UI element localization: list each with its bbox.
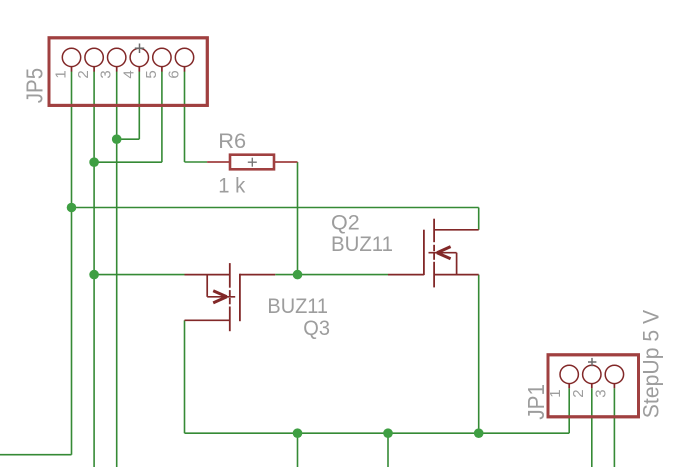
wire top net down to Q2 drain (478, 208, 480, 230)
Q2 gate line (423, 230, 425, 275)
transistor Q2 (388, 219, 479, 288)
svg-text:5: 5 (143, 70, 160, 78)
svg-text:2: 2 (570, 389, 587, 397)
JP5 pin 2 (75, 48, 103, 78)
wire gate net middle segment (275, 274, 388, 276)
wire Q2 source down (478, 275, 480, 434)
Q2 bulk arrowhead (437, 247, 451, 259)
JP5 pin 3 (98, 48, 126, 78)
junction pin2/pin5 (89, 157, 99, 167)
wire pin2 JP5 vertical (93, 72, 95, 467)
transistor Q3 (185, 263, 276, 331)
svg-text:1: 1 (53, 70, 70, 78)
connector JP5 (22, 38, 208, 106)
svg-text:1: 1 (547, 389, 564, 397)
junction pin2/gate net (89, 270, 99, 280)
JP5 box outline (49, 38, 207, 106)
svg-text:1 k: 1 k (218, 174, 245, 197)
wire Q3 drain down (184, 320, 186, 433)
wire pin6 to R6 horizontal (185, 161, 208, 163)
Q2 gate lead (388, 274, 424, 276)
JP5 pin 5 (143, 48, 171, 78)
svg-text:Q2: Q2 (331, 212, 360, 235)
Q3 bulk connection (207, 275, 235, 297)
wire pin1 bottom horizontal to left edge (0, 454, 72, 456)
JP1 origin cross (588, 358, 596, 366)
svg-text:6: 6 (166, 70, 183, 78)
svg-text:StepUp 5 V: StepUp 5 V (639, 310, 664, 418)
svg-text:4: 4 (120, 70, 137, 78)
Q3 source lead (185, 274, 230, 276)
wire pin3 JP5 vertical (116, 72, 118, 467)
Q2 source lead (434, 274, 479, 276)
wire pin6 JP5 vertical (184, 72, 186, 163)
wire JP1 pin2 down (591, 388, 593, 467)
wire R6 right vertical down (297, 162, 299, 275)
JP5 pin 1 (53, 48, 81, 78)
svg-text:JP1: JP1 (523, 384, 549, 420)
JP5 box border restroke (49, 38, 207, 106)
svg-text:3: 3 (98, 70, 115, 78)
wire top net horizontal (72, 207, 479, 209)
Q3 bulk arrowhead (213, 291, 227, 303)
wire pin5 JP5 vertical (161, 72, 163, 163)
JP5 pin 4 (120, 48, 148, 78)
wire drop A to bottom edge (297, 433, 299, 467)
junction bottom wire Q2 source (474, 428, 484, 438)
JP1 pin 2 (570, 365, 601, 398)
wire JP1 pin3 down (613, 388, 615, 467)
svg-text:JP5: JP5 (22, 68, 48, 103)
wire pin4 JP5 vertical (138, 72, 140, 140)
svg-text:BUZ11: BUZ11 (331, 233, 393, 256)
resistor R6 (207, 155, 297, 170)
Q3 channel dashes (229, 263, 231, 331)
svg-text:BUZ11: BUZ11 (267, 295, 328, 318)
Q3 gate line (239, 274, 241, 322)
Q2 bulk connection (429, 253, 457, 275)
svg-text:2: 2 (75, 70, 92, 78)
JP1 pin 3 (592, 365, 623, 398)
wire gate net left segment (94, 274, 184, 276)
junction bottom wire drop A (293, 428, 303, 438)
wire bottom horizontal (185, 432, 570, 434)
wire pin1 JP5 vertical (71, 72, 73, 455)
wire drop B to bottom edge (387, 433, 389, 467)
junction pin1/top net (67, 203, 77, 213)
JP5 origin cross (135, 44, 144, 54)
svg-text:R6: R6 (218, 130, 246, 153)
Q3 drain lead (185, 319, 230, 321)
wire pin4 to pin3 horizontal (117, 138, 140, 140)
JP1 box outline (548, 355, 639, 417)
Q2 channel dashes (433, 219, 435, 288)
JP5 pin 6 (166, 48, 194, 78)
Q2 drain lead (434, 229, 479, 231)
wire JP1 pin1 up from bottom wire (568, 388, 570, 433)
connector JP1 (523, 310, 663, 420)
junction R6/gate net (293, 270, 303, 280)
svg-text:Q3: Q3 (303, 317, 330, 340)
JP1 pin 1 (547, 365, 578, 398)
JP1 box border restroke (548, 355, 639, 417)
junction pin3/pin4 (112, 134, 122, 144)
wire pin5 to pin2 horizontal (94, 161, 162, 163)
Q3 gate lead (240, 274, 275, 276)
junction bottom wire drop B (383, 428, 393, 438)
svg-text:3: 3 (592, 389, 609, 397)
